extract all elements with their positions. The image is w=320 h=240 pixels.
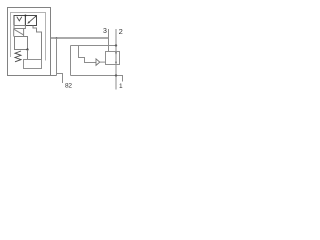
diaphragm shallow box under left square — [14, 26, 25, 29]
linkage stem left — [13, 29, 15, 37]
enclosure inner box (light) — [11, 13, 46, 61]
wire from dot down to lower box — [27, 50, 29, 60]
arrowheads inside sensor box — [115, 52, 117, 54]
spring zigzag — [15, 51, 21, 62]
wire W6 bottom horizontal with end corner — [71, 76, 123, 82]
valve right position diagonal arrow with tick — [28, 15, 36, 23]
port 3 line — [108, 29, 110, 52]
piston tall box — [15, 37, 28, 50]
wire V1 vertical — [70, 46, 72, 76]
valve left square — [14, 16, 25, 26]
junction dot on W1 — [56, 37, 58, 39]
lower chamber box R3 — [24, 60, 42, 69]
wire V2 down to bottom edge — [56, 38, 58, 76]
port 2 / port 1 line — [115, 29, 117, 90]
wire W1 to port 3 — [51, 37, 109, 39]
port 82 stub — [57, 74, 63, 84]
staircase wire from right square port — [33, 26, 42, 60]
pneumatic pressure-regulator circuit schematic 128x91 — [0, 0, 128, 91]
wire triangle to box — [100, 61, 106, 63]
enclosure outer solid box with bottom-edge extension to V2 — [8, 8, 57, 76]
wire W2 horizontal — [71, 45, 117, 47]
valve left position V arrow — [17, 17, 22, 21]
svg-text:82: 82 — [65, 82, 72, 89]
junction dot at tall box corner — [26, 48, 28, 50]
junction dot on valve top — [24, 15, 26, 17]
svg-text:2: 2 — [119, 27, 123, 36]
linkage diagonal — [14, 29, 24, 35]
wire branch to amplifier — [79, 46, 97, 63]
valve right square — [25, 16, 36, 26]
junction dot on W6 — [115, 74, 117, 76]
sensor box right — [106, 52, 120, 65]
amplifier triangle — [96, 59, 100, 66]
svg-text:1: 1 — [119, 83, 123, 90]
svg-text:3: 3 — [103, 28, 107, 35]
junction dot on W2 — [115, 44, 117, 46]
linkage stem right — [23, 29, 25, 37]
